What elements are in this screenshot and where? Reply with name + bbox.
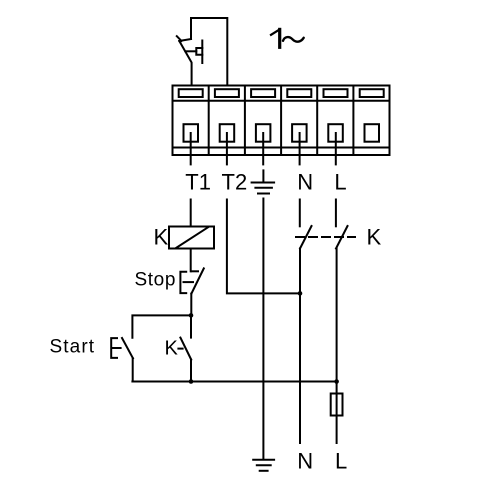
svg-text:N: N [297, 170, 313, 195]
svg-text:Stop: Stop [135, 270, 177, 291]
svg-text:T1: T1 [185, 170, 211, 195]
svg-text:L: L [334, 170, 346, 195]
svg-text:K: K [367, 225, 382, 250]
svg-text:K: K [165, 337, 179, 359]
svg-text:N: N [297, 448, 313, 473]
svg-text:L: L [335, 448, 347, 473]
svg-text:T2: T2 [222, 170, 248, 195]
svg-text:K: K [154, 225, 169, 250]
svg-text:Start: Start [50, 337, 96, 358]
